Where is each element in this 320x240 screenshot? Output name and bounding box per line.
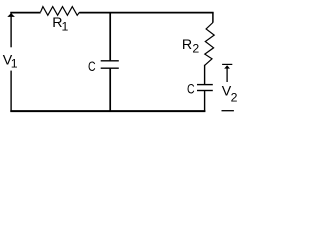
- capacitor C (middle) bottom plate: [101, 67, 119, 69]
- source V1 arrow upper lead: [10, 12, 12, 47]
- wire: bottom rail: [10, 110, 205, 112]
- wire: middle branch lower: [109, 69, 111, 112]
- source V1 lower lead: [10, 71, 12, 112]
- svg-text:C: C: [88, 59, 96, 75]
- wire: right branch upper: [212, 12, 214, 22]
- svg-text:2: 2: [192, 42, 199, 56]
- svg-text:1: 1: [11, 57, 18, 71]
- svg-text:2: 2: [231, 90, 238, 104]
- V2 plus-side bar: [222, 63, 232, 65]
- source V1 arrowhead: [7, 13, 15, 17]
- capacitor C (middle) top plate: [101, 60, 119, 62]
- capacitor C (right) top plate: [197, 84, 213, 86]
- wire: top rail left segment: [10, 12, 40, 14]
- wire: top rail right segment: [79, 12, 213, 14]
- V2 arrow shaft: [226, 68, 228, 83]
- svg-text:C: C: [187, 81, 195, 97]
- resistor R1: [41, 7, 80, 16]
- V2 minus-side bar: [222, 110, 234, 112]
- svg-text:1: 1: [62, 20, 69, 34]
- V2 arrowhead: [224, 65, 230, 68]
- wire: R2 to C2 lead: [204, 65, 206, 85]
- capacitor C (right) bottom plate: [197, 90, 213, 92]
- resistor R2: [205, 23, 215, 66]
- wire: C2 lower lead: [204, 91, 206, 112]
- wire: middle branch upper: [109, 12, 111, 60]
- svg-text:R: R: [182, 37, 192, 53]
